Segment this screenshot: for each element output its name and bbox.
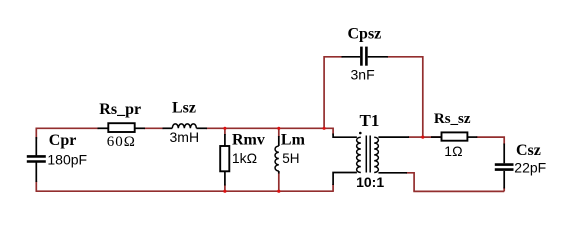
svg-text:10:1: 10:1	[356, 174, 384, 190]
svg-text:22pF: 22pF	[514, 159, 546, 175]
svg-text:180pF: 180pF	[47, 151, 87, 167]
svg-text:3nF: 3nF	[351, 66, 375, 82]
svg-text:Rmv: Rmv	[232, 132, 265, 149]
svg-text:Rs_sz: Rs_sz	[434, 111, 471, 127]
svg-text:Lm: Lm	[281, 132, 306, 149]
svg-text:3mH: 3mH	[170, 129, 200, 145]
svg-text:Cpsz: Cpsz	[348, 25, 382, 42]
svg-text:Rs_pr: Rs_pr	[99, 101, 141, 118]
svg-text:5H: 5H	[282, 151, 299, 166]
svg-text:T1: T1	[360, 111, 380, 130]
svg-text:60Ω: 60Ω	[107, 134, 136, 150]
svg-text:1kΩ: 1kΩ	[232, 150, 257, 166]
svg-text:Csz: Csz	[516, 142, 541, 159]
svg-text:1Ω: 1Ω	[444, 143, 462, 159]
svg-text:Cpr: Cpr	[49, 132, 77, 149]
svg-text:Lsz: Lsz	[172, 100, 196, 117]
